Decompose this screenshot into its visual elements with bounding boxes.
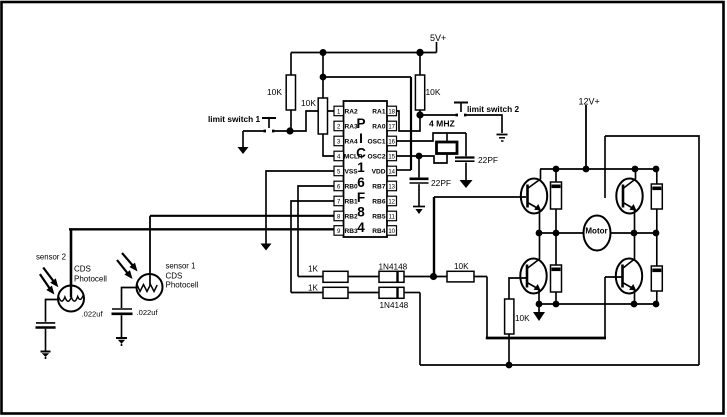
svg-text:22PF: 22PF — [431, 178, 451, 188]
resistor 10K (right pull-up) — [415, 53, 424, 116]
wire node A vertical (diode D1 / TL base) — [433, 197, 435, 277]
node dot bottom rail 3 — [631, 301, 638, 308]
wire RB1 pin7 to 1K row2 — [291, 201, 334, 293]
node dot bottom rail 2 — [553, 301, 560, 308]
svg-text:8: 8 — [357, 205, 365, 220]
pin 13 — [387, 181, 397, 191]
wire right loop riser — [605, 136, 699, 365]
node dot limit switch 1 — [286, 127, 293, 134]
node dot limit switch 2 — [416, 111, 423, 118]
transistor Q1 (top-left) — [521, 169, 547, 233]
svg-text:Motor: Motor — [585, 227, 607, 236]
svg-text:CDS: CDS — [166, 272, 183, 281]
node dot bottom bus / 10K — [506, 362, 513, 369]
wire pin1 RA2 to limit switch 1 node — [290, 111, 334, 131]
ground (left 22PF) — [413, 207, 425, 215]
label PIC16F84 vertical — [356, 116, 366, 235]
svg-text:10K: 10K — [426, 87, 441, 97]
svg-text:1: 1 — [357, 160, 365, 175]
node dot mid rail 3 — [631, 230, 638, 237]
svg-text:16: 16 — [388, 140, 395, 146]
svg-text:11: 11 — [389, 215, 396, 221]
limit switch 1 — [243, 118, 290, 132]
svg-text:1N4148: 1N4148 — [380, 301, 409, 310]
node dot top rail 1 — [553, 166, 560, 173]
ground (VSS) — [261, 244, 272, 251]
wire VDD riser — [410, 77, 412, 170]
svg-text:limit switch 1: limit switch 1 — [208, 114, 260, 124]
svg-text:RA4: RA4 — [345, 139, 359, 146]
node dot top rail 3 — [653, 166, 660, 173]
transistor Q3 (bottom-left) — [520, 233, 546, 304]
svg-text:12V+: 12V+ — [579, 97, 600, 107]
pin 14 — [387, 166, 397, 176]
wire BR base jog — [486, 277, 623, 339]
svg-text:4 MHZ: 4 MHZ — [429, 119, 455, 129]
wire OSC1 to crystal top — [397, 133, 467, 141]
IC U1 PIC16F84 body — [344, 101, 388, 237]
svg-text:10: 10 — [388, 229, 395, 235]
svg-text:RA1: RA1 — [372, 109, 386, 116]
svg-text:VDD: VDD — [372, 169, 386, 176]
svg-text:RB5: RB5 — [372, 214, 386, 221]
wire H-bridge middle rail — [539, 232, 657, 234]
resistor 10K (vertical, BL base) — [505, 278, 526, 365]
light arrows sensor 1 — [117, 253, 138, 279]
ground (sensor 1 cap) — [116, 338, 127, 346]
crystal Y1 4MHZ — [437, 133, 458, 154]
label CDS Photocell (sensor 2) — [74, 265, 107, 284]
capacitor 22PF (left, OSC2) — [410, 156, 429, 206]
svg-text:10K: 10K — [267, 87, 282, 97]
pin 4 — [334, 151, 344, 161]
pin 9 — [334, 226, 344, 236]
resistor (bottom-left bridge) — [551, 233, 562, 304]
svg-text:12: 12 — [388, 200, 395, 206]
svg-text:.022uf: .022uf — [137, 308, 159, 317]
svg-text:6: 6 — [357, 175, 365, 190]
pin 8 — [334, 211, 344, 221]
node dot OSC2/22PF — [416, 153, 423, 160]
svg-text:RB7: RB7 — [372, 184, 386, 191]
wire MCLR node branch — [322, 53, 324, 99]
wire 5V supply rail — [291, 52, 437, 54]
wire VSS to ground — [266, 171, 334, 244]
wire sensor 2 riser — [70, 229, 73, 296]
wire VDD to pin14 — [397, 169, 412, 171]
pin 2 — [334, 121, 344, 131]
transistor Q4 (bottom-right) — [616, 233, 642, 304]
svg-text:1N4148: 1N4148 — [379, 263, 408, 272]
power 5V+ — [436, 42, 438, 53]
svg-text:RA2: RA2 — [345, 109, 359, 116]
wire OSC2 to crystal bottom — [397, 153, 448, 163]
svg-text:RA0: RA0 — [372, 124, 386, 131]
svg-text:OSC2: OSC2 — [368, 154, 386, 161]
pin 5 — [334, 166, 344, 176]
light arrows sensor 2 — [40, 268, 58, 295]
wire sensor 1 riser — [149, 216, 151, 284]
pin 11 — [387, 211, 397, 221]
svg-text:15: 15 — [388, 155, 395, 161]
svg-text:OSC1: OSC1 — [368, 139, 386, 146]
wire RB3 pin9 to sensor 2 — [69, 228, 334, 230]
svg-text:C: C — [356, 146, 366, 161]
svg-text:RB2: RB2 — [345, 214, 359, 221]
node dot D1 output — [430, 273, 437, 280]
photocell sensor 1 — [137, 274, 163, 300]
power 12V+ — [585, 105, 587, 169]
wire bottom bus — [420, 364, 699, 366]
svg-text:sensor 1: sensor 1 — [166, 262, 196, 271]
resistor 10K (horizontal, to BR base) — [433, 271, 487, 282]
capacitor .022uf (sensor 2) — [36, 300, 59, 352]
node dot 5V/right — [416, 49, 423, 56]
svg-text:VSS: VSS — [345, 169, 359, 176]
capacitor 22PF (right, OSC1) — [455, 133, 475, 180]
pin 1 — [334, 106, 344, 116]
svg-text:18: 18 — [388, 110, 395, 116]
wire pin18 RA1 to limit switch 2 node — [397, 111, 421, 131]
motor M1 — [584, 216, 611, 251]
svg-text:I: I — [359, 131, 363, 146]
wire diode D2 to bottom bus — [419, 293, 421, 366]
resistor 10K (left pull-up) — [286, 53, 295, 132]
capacitor .022uf (sensor 1) — [112, 288, 138, 338]
svg-text:RB4: RB4 — [372, 228, 386, 235]
ground (limit switch 2) — [497, 135, 508, 142]
resistor (bottom-right bridge) — [651, 233, 662, 304]
resistor 10K (MCLR pull-up) — [318, 98, 334, 156]
diode D2 1N4148 — [379, 287, 420, 298]
pin 17 — [387, 121, 397, 131]
pin 3 — [334, 136, 344, 146]
diode D1 1N4148 — [379, 271, 433, 282]
node dot 5V/left — [320, 49, 327, 56]
ground (right 22PF) — [460, 180, 473, 188]
svg-text:17: 17 — [388, 125, 395, 131]
node dot top rail 12V — [583, 166, 590, 173]
node dot top rail 2 — [632, 166, 639, 173]
photocell sensor 2 — [58, 286, 84, 312]
svg-text:14: 14 — [388, 170, 395, 176]
pin 7 — [334, 196, 344, 206]
node dot mid rail 4 — [653, 230, 660, 237]
wire RB0 pin6 to 1K row1 — [298, 186, 334, 277]
svg-text:5V+: 5V+ — [430, 33, 446, 43]
svg-text:22PF: 22PF — [478, 155, 498, 165]
label CDS Photocell (sensor 1) — [166, 272, 199, 290]
resistor (top-right bridge) — [651, 169, 662, 233]
wire RB2 pin8 to sensor 1 — [150, 215, 334, 217]
svg-text:P: P — [356, 116, 365, 131]
svg-text:sensor 2: sensor 2 — [36, 253, 66, 262]
pin 10 — [387, 226, 397, 236]
node VDD branch wire — [323, 76, 411, 78]
svg-text:RB3: RB3 — [345, 228, 359, 235]
wire TR base riser — [604, 136, 606, 198]
pin 16 — [387, 136, 397, 146]
svg-text:CDS: CDS — [74, 265, 91, 274]
ground (H-bridge) — [533, 304, 545, 321]
svg-text:RB6: RB6 — [372, 199, 386, 206]
svg-text:13: 13 — [388, 185, 395, 191]
pin 15 — [387, 151, 397, 161]
pin 12 — [387, 196, 397, 206]
wire TL base — [434, 196, 526, 198]
limit switch 2 — [420, 103, 502, 134]
wire H-bridge top rail — [540, 168, 656, 170]
svg-text:Photocell: Photocell — [166, 281, 199, 290]
svg-text:F: F — [357, 190, 365, 205]
pin 6 — [334, 181, 344, 191]
svg-text:10K: 10K — [301, 98, 316, 108]
svg-text:1K: 1K — [308, 284, 319, 293]
svg-text:limit switch 2: limit switch 2 — [467, 104, 519, 114]
node dot mid rail 2 — [553, 230, 560, 237]
svg-text:10K: 10K — [454, 262, 469, 271]
resistor (top-left bridge) — [551, 169, 562, 233]
node dot bottom rail 1 — [536, 301, 543, 308]
node dot bottom rail 4 — [653, 301, 660, 308]
node dot MCLR/VDD branch — [320, 74, 327, 81]
svg-text:Photocell: Photocell — [74, 275, 107, 284]
svg-text:.022uf: .022uf — [82, 310, 104, 319]
svg-text:1K: 1K — [308, 265, 319, 274]
wire H-bridge bottom rail — [539, 303, 657, 305]
svg-text:4: 4 — [357, 220, 365, 235]
node dot mid rail 1 — [536, 230, 543, 237]
ground (sensor 2 cap) — [41, 352, 51, 360]
svg-text:10K: 10K — [515, 314, 530, 323]
transistor Q2 (top-right) — [616, 169, 642, 233]
ground (limit switch 1) — [238, 131, 249, 154]
resistor 1K (row 2) — [291, 287, 379, 298]
pin 18 — [387, 106, 397, 116]
resistor 1K (row 1) — [298, 271, 379, 282]
